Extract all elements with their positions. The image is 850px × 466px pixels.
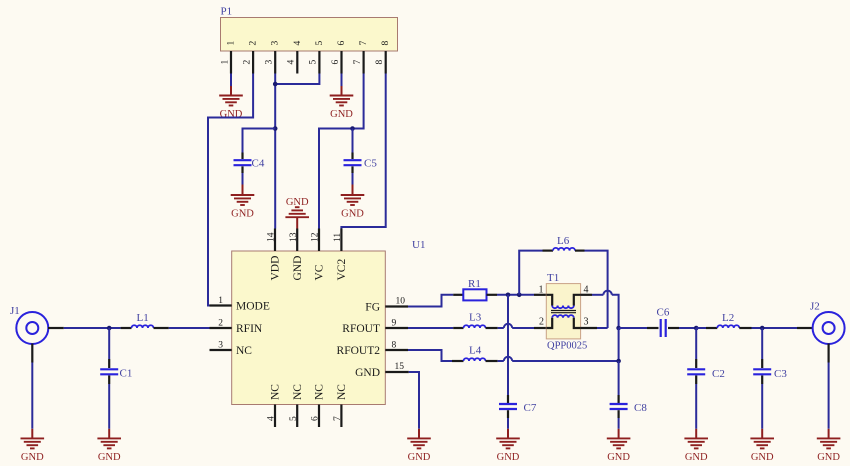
svg-text:8: 8 xyxy=(381,41,391,46)
wire C1 branch xyxy=(108,328,110,359)
svg-text:6: 6 xyxy=(311,416,321,421)
svg-text:NC: NC xyxy=(292,384,304,400)
svg-text:5: 5 xyxy=(309,60,319,65)
U1 pin 4 NC xyxy=(267,384,282,427)
svg-text:U1: U1 xyxy=(412,239,425,251)
ground under J1 xyxy=(21,429,45,463)
J2 bottom pin xyxy=(827,344,829,363)
svg-text:1: 1 xyxy=(539,284,544,295)
svg-text:NC: NC xyxy=(236,345,252,357)
svg-text:1: 1 xyxy=(227,41,237,46)
inductor L3 xyxy=(453,312,498,329)
svg-text:3: 3 xyxy=(218,341,223,351)
wire C2 branch xyxy=(695,328,697,359)
svg-text:RFOUT: RFOUT xyxy=(342,323,380,335)
svg-text:4: 4 xyxy=(287,60,297,65)
svg-text:8: 8 xyxy=(392,341,397,351)
wire U1 RFOUT to L3 xyxy=(408,327,453,329)
svg-text:11: 11 xyxy=(333,233,343,242)
P1 pin 3 xyxy=(265,41,281,74)
svg-text:3: 3 xyxy=(265,60,275,65)
node C1 junction xyxy=(107,326,112,331)
capacitor C4 xyxy=(234,153,265,174)
svg-text:VDD: VDD xyxy=(270,256,282,281)
U1 pin 7 NC xyxy=(333,384,348,427)
capacitor C6 (series) xyxy=(647,306,679,337)
wire C3 branch xyxy=(761,328,763,359)
svg-text:T1: T1 xyxy=(547,272,559,284)
U1 pin 15 GND xyxy=(355,362,409,379)
U1 pin 12 VC xyxy=(311,229,326,281)
svg-text:6: 6 xyxy=(331,60,341,65)
T1 pin 2 stub xyxy=(534,327,546,329)
svg-text:L6: L6 xyxy=(557,235,570,247)
J1 bottom pin xyxy=(31,344,33,363)
svg-text:C2: C2 xyxy=(712,368,725,380)
svg-text:C4: C4 xyxy=(252,158,265,170)
svg-text:C1: C1 xyxy=(120,368,133,380)
wire P1.6 to ground xyxy=(341,74,343,87)
svg-text:VC2: VC2 xyxy=(336,259,348,281)
U1 pin 13 GND xyxy=(289,229,304,281)
svg-text:10: 10 xyxy=(396,297,406,307)
U1 pin 10 FG xyxy=(365,297,408,314)
wire J1 to ground xyxy=(31,363,33,429)
P1 pin 5 xyxy=(309,41,325,74)
svg-text:7: 7 xyxy=(353,60,363,65)
wire U1 FG to R1 xyxy=(408,295,453,307)
resistor R1 xyxy=(453,278,497,300)
svg-text:4: 4 xyxy=(267,416,277,421)
ground under J2 xyxy=(817,429,841,463)
svg-text:15: 15 xyxy=(395,362,405,372)
capacitor C2 xyxy=(687,359,725,384)
op-amp U1 (RF switch IC body) xyxy=(232,239,426,405)
wire P1.5 to P1.3 net xyxy=(275,74,319,85)
svg-text:L4: L4 xyxy=(469,345,482,357)
wire C2 to ground xyxy=(695,384,697,429)
svg-text:J2: J2 xyxy=(810,301,820,313)
svg-text:L1: L1 xyxy=(137,312,149,324)
wire L2 to C3 node xyxy=(752,327,798,329)
wire U1 RFOUT2 to L4 xyxy=(408,350,452,361)
node L6 branch junction xyxy=(517,293,522,298)
svg-text:4: 4 xyxy=(293,41,303,46)
svg-text:3: 3 xyxy=(271,41,281,46)
ground under C4 xyxy=(231,185,255,220)
ground under C3 xyxy=(750,429,774,463)
wire C7 to ground xyxy=(507,418,509,429)
U1 pin 14 VDD xyxy=(267,229,282,281)
U1 pin 11 VC2 xyxy=(333,229,348,281)
wire R1 to T1 pin 1 xyxy=(497,294,534,296)
node C4 branch junction xyxy=(273,126,278,131)
ground at P1 pin 1 xyxy=(219,86,243,120)
wire L3 to T1 pin 2 with hop xyxy=(498,327,504,329)
capacitor C3 xyxy=(753,359,787,384)
wire P1.1 to ground xyxy=(230,74,232,87)
svg-text:C8: C8 xyxy=(634,402,647,414)
capacitor C7 xyxy=(499,395,537,418)
T1 pin 1 stub xyxy=(534,294,546,296)
ground under C2 xyxy=(684,429,708,463)
P1 pin 7 xyxy=(353,41,369,74)
inductor L4 xyxy=(452,345,498,362)
svg-text:QPP0025: QPP0025 xyxy=(547,341,587,352)
svg-text:2: 2 xyxy=(218,319,223,329)
svg-text:GND: GND xyxy=(355,367,380,379)
ground at P1 pin 6 xyxy=(330,86,354,120)
svg-text:VC: VC xyxy=(314,264,326,280)
ground under C5 xyxy=(341,185,365,220)
wire C8 to ground xyxy=(618,418,620,429)
svg-text:5: 5 xyxy=(315,41,325,46)
wire P1.8 to U1 VC2 xyxy=(341,74,385,229)
wire C7 riser xyxy=(507,295,509,395)
wire xyxy=(512,360,618,362)
svg-text:2: 2 xyxy=(242,60,252,65)
wire P1.7 to U1 VC xyxy=(319,74,364,229)
node C2 junction xyxy=(694,326,699,331)
svg-text:7: 7 xyxy=(359,41,369,46)
node L4/C8 junction xyxy=(616,359,621,364)
J1 right pin xyxy=(48,327,64,329)
T1 core xyxy=(551,311,576,313)
wire P1.3 to U1 VDD xyxy=(274,74,276,229)
svg-text:12: 12 xyxy=(311,232,321,242)
capacitor C5 xyxy=(344,153,378,174)
capacitor C8 xyxy=(610,395,648,418)
wire hop over C7 riser xyxy=(504,324,512,328)
U1 pin 8 RFOUT2 xyxy=(337,341,408,357)
U1 pin 1 MODE xyxy=(210,296,270,312)
U1 pin 3 NC xyxy=(210,341,253,357)
wire C3 to ground xyxy=(761,384,763,429)
svg-text:NC: NC xyxy=(270,384,282,400)
svg-text:13: 13 xyxy=(289,232,299,242)
svg-text:C3: C3 xyxy=(774,368,787,380)
svg-text:P1: P1 xyxy=(221,5,233,17)
P1 pin 6 xyxy=(331,41,347,74)
connector J1 xyxy=(10,305,48,344)
wire to C8 xyxy=(618,361,620,395)
wire C4 to ground xyxy=(242,173,244,185)
svg-text:L2: L2 xyxy=(722,312,734,324)
node C5 branch junction xyxy=(350,126,355,131)
svg-text:L3: L3 xyxy=(469,312,482,324)
wire to C4 xyxy=(243,129,276,153)
node output junction xyxy=(616,326,621,331)
wire output down to L4 node xyxy=(618,328,620,361)
transformer T1 xyxy=(546,272,587,352)
svg-text:1: 1 xyxy=(220,60,230,65)
ground under C1 xyxy=(97,429,121,463)
P1 pin 8 xyxy=(375,41,391,74)
node C3 junction xyxy=(760,326,765,331)
inverted ground above U1 pin 13 xyxy=(285,197,309,229)
wire to C5 xyxy=(352,129,354,153)
svg-text:C5: C5 xyxy=(364,158,377,170)
svg-text:RFIN: RFIN xyxy=(236,323,263,335)
svg-text:NC: NC xyxy=(336,384,348,400)
T1 secondary winding xyxy=(546,315,580,328)
U1 pin 5 NC xyxy=(289,384,304,427)
T1 pin 4 wire with hop over L6 vertical xyxy=(581,291,619,328)
svg-text:J1: J1 xyxy=(10,305,20,317)
inductor L2 xyxy=(706,312,752,328)
svg-text:1: 1 xyxy=(218,296,223,306)
wire C2 node to L2 xyxy=(696,327,706,329)
ground under C8 xyxy=(607,429,631,463)
svg-text:NC: NC xyxy=(314,384,326,400)
J2 left pin xyxy=(797,327,813,329)
svg-text:8: 8 xyxy=(375,60,385,65)
T1 pin 3 wire to L6 vertical xyxy=(581,327,608,329)
connector J2 xyxy=(810,301,845,345)
wire C5 to ground xyxy=(352,173,354,185)
P1 pin 4 (no connect) xyxy=(287,41,303,74)
svg-text:7: 7 xyxy=(333,416,343,421)
svg-text:RFOUT2: RFOUT2 xyxy=(337,345,381,357)
svg-text:2: 2 xyxy=(249,41,259,46)
svg-text:2: 2 xyxy=(539,316,544,327)
svg-text:MODE: MODE xyxy=(236,300,270,312)
wire J1 to C1 node xyxy=(64,327,121,329)
wire J2 to ground xyxy=(828,363,830,429)
svg-text:6: 6 xyxy=(337,41,347,46)
P1 pin 1 xyxy=(220,41,236,74)
wire xyxy=(512,327,534,329)
svg-text:GND: GND xyxy=(292,256,304,281)
wire output to C6 xyxy=(619,327,647,329)
svg-text:14: 14 xyxy=(267,232,277,242)
svg-text:3: 3 xyxy=(584,316,589,327)
svg-text:FG: FG xyxy=(365,301,380,313)
node P1.3/P1.5 junction xyxy=(273,82,278,87)
svg-text:GND: GND xyxy=(286,197,309,208)
svg-text:C7: C7 xyxy=(524,402,537,414)
U1 pin 9 RFOUT xyxy=(342,319,408,335)
svg-text:R1: R1 xyxy=(468,278,481,290)
ground under U1 pin 15 xyxy=(407,429,431,463)
wire L4 to output node with hop xyxy=(498,360,504,362)
U1 pin 6 NC xyxy=(311,384,326,427)
svg-text:4: 4 xyxy=(584,284,589,295)
svg-text:C6: C6 xyxy=(657,306,670,318)
svg-text:5: 5 xyxy=(289,416,299,421)
U1 pin 2 RFIN xyxy=(210,319,263,335)
wire P1.2 to U1 MODE xyxy=(208,74,253,306)
svg-text:9: 9 xyxy=(392,319,397,329)
T1 primary winding xyxy=(546,295,580,308)
inductor L6 xyxy=(519,235,607,328)
wire C1 to ground xyxy=(108,384,110,429)
connector P1 xyxy=(221,5,398,51)
wire hop over C7 riser xyxy=(504,357,512,361)
ground under C7 xyxy=(496,429,520,463)
wire C6 to C2 node xyxy=(679,327,696,329)
wire L1 to U1 RFIN xyxy=(169,327,210,329)
P1 pin 2 xyxy=(242,41,258,74)
wire U1 pin15 to ground xyxy=(409,372,419,429)
capacitor C1 xyxy=(100,359,132,384)
inductor L1 xyxy=(121,312,169,328)
node FG/C7 junction xyxy=(506,293,511,298)
